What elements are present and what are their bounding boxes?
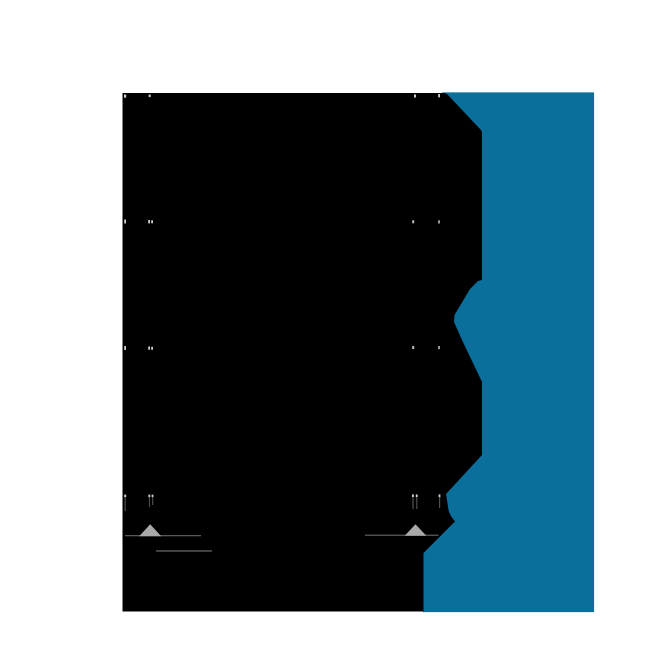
node: mid row 2 right dot b: [438, 346, 440, 349]
node: mid row 2 left edge dot: [124, 346, 126, 350]
node: bottom-right single dot: [439, 494, 441, 497]
node: top-left terminal dot: [124, 95, 126, 98]
node: mid row 2 pair dot b: [151, 347, 153, 350]
wire: stub below bottom-right pair b: [416, 497, 417, 509]
node: bottom pair dot b: [152, 495, 154, 498]
node: mid row 1 pair dot b: [151, 220, 153, 223]
node: bottom-right pair dot b: [416, 494, 418, 497]
node: bottom-right pair dot a: [412, 494, 414, 497]
wire: ground rail right: [365, 535, 439, 536]
ground: left ground triangle: [139, 524, 161, 536]
node: top-right terminal dot 2: [438, 94, 440, 97]
wire: ground rail left: [125, 535, 201, 536]
node: mid row 1 right dot b: [438, 220, 440, 223]
wire: stub below bottom pair b: [152, 497, 153, 505]
node: mid row 1 right dot a: [412, 220, 414, 223]
node: mid row 1 pair dot a: [148, 220, 150, 223]
wire: stub below bottom pair a: [149, 497, 150, 507]
wire: lower gray segment: [156, 550, 212, 551]
node: top terminal dot 2: [149, 95, 151, 98]
wire: stub below bottom-left terminal: [125, 497, 126, 511]
wire: stub below bottom-right pair a: [412, 497, 413, 509]
node: bottom-left terminal dot: [124, 495, 126, 498]
ground: right ground triangle: [405, 524, 427, 536]
black panel backdrop: [123, 93, 483, 612]
blue logo swoosh backdrop: [424, 93, 594, 612]
node: top-right terminal dot 1: [414, 95, 416, 98]
wire: stub below bottom-right single: [439, 497, 440, 508]
node: mid row 2 right dot a: [412, 346, 414, 349]
node: bottom pair dot a: [148, 495, 150, 498]
node: mid row 1 left edge dot: [124, 220, 126, 224]
node: mid row 2 pair dot a: [148, 347, 150, 350]
